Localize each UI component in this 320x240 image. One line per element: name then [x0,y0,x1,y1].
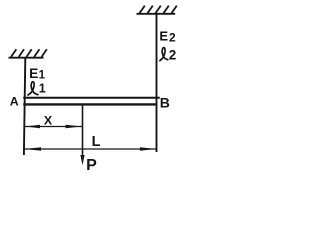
svg-text:E: E [29,66,38,81]
svg-text:X: X [44,114,53,128]
svg-text:2: 2 [169,31,176,45]
svg-text:L: L [92,134,101,150]
svg-text:2: 2 [169,48,177,63]
svg-text:1: 1 [39,70,46,82]
svg-text:1: 1 [39,82,46,96]
svg-text:B: B [160,95,170,111]
svg-text:P: P [86,157,97,174]
svg-text:A: A [10,94,19,108]
svg-text:E: E [159,29,168,44]
